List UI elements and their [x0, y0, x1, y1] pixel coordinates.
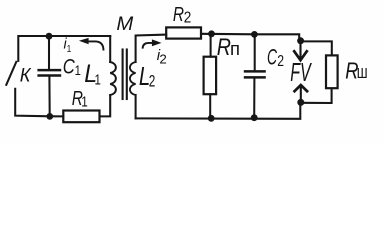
junction dot C1 bottom: [46, 113, 53, 120]
inductor L1 top lead: [109, 36, 111, 62]
arrester FV bottom arrowhead (up chevron): [295, 85, 308, 91]
wire bottom-left to R1: [50, 115, 63, 117]
wire FV bottom to Rsh bottom: [301, 89, 332, 103]
svg-text:К: К: [20, 64, 32, 86]
arrester FV bottom electrode: [300, 86, 302, 102]
svg-text:1: 1: [95, 71, 101, 88]
svg-text:1: 1: [75, 62, 81, 79]
switch K blade: [6, 62, 16, 85]
arrester FV top arrowhead (down chevron): [294, 51, 307, 60]
svg-text:M: M: [116, 13, 133, 35]
svg-text:2: 2: [277, 52, 284, 70]
current arrow i2 line: [143, 43, 153, 49]
svg-text:2: 2: [184, 10, 192, 27]
wire bottom rail right: [136, 103, 301, 119]
wire C2 top to FV step: [254, 34, 299, 40]
svg-text:C: C: [63, 55, 75, 78]
resistor Rp body: [204, 57, 217, 94]
wire FV top to Rsh top: [301, 41, 332, 55]
svg-text:R: R: [217, 33, 231, 60]
resistor R2 body: [166, 27, 201, 38]
current arrow i1 line: [88, 41, 104, 50]
transformer core line 2: [126, 50, 128, 100]
arrester FV top electrode: [299, 41, 301, 60]
svg-text:2: 2: [149, 73, 156, 92]
inductor L2 bottom lead: [135, 95, 137, 118]
junction dot Rp bottom: [208, 115, 215, 122]
wire R1 to L1 bottom: [100, 95, 111, 116]
inductor L1 coil: [110, 62, 116, 95]
wire lower-left vertical: [15, 89, 50, 117]
wire top-left rail: [18, 36, 110, 61]
inductor L2 coil: [130, 62, 136, 95]
wire R2 to C2 top: [201, 33, 254, 36]
current arrow i2 head: [152, 39, 162, 46]
svg-text:п: п: [230, 38, 240, 59]
junction dot FV top: [297, 37, 304, 44]
svg-text:FV: FV: [290, 58, 312, 87]
capacitor C1 plates: [37, 69, 61, 72]
junction dot C2 top: [251, 31, 258, 38]
capacitor C1 bottom lead: [48, 76, 50, 116]
junction dot FV bottom: [297, 99, 304, 106]
current arrow i1 head: [79, 38, 89, 44]
junction dot C1 top: [46, 33, 53, 40]
capacitor C1 top lead: [48, 36, 50, 69]
resistor Rsh body: [326, 55, 338, 88]
inductor L2 top lead / wire to R2: [136, 35, 167, 62]
junction dot C2 bottom: [251, 114, 258, 121]
svg-text:2: 2: [159, 51, 166, 66]
svg-text:R: R: [173, 3, 184, 25]
svg-text:C: C: [267, 44, 278, 69]
resistor Rp bottom lead: [209, 94, 211, 118]
resistor Rp top lead: [210, 34, 212, 57]
junction dot after R2: [208, 30, 215, 37]
transformer core line 1: [122, 50, 124, 100]
capacitor C2 plates: [244, 70, 266, 73]
resistor R1 body: [63, 111, 99, 123]
capacitor C2 bottom lead: [253, 78, 255, 117]
svg-text:1: 1: [67, 43, 71, 54]
capacitor C2 top lead: [254, 34, 256, 70]
svg-text:ш: ш: [357, 63, 368, 82]
svg-text:1: 1: [81, 93, 88, 110]
